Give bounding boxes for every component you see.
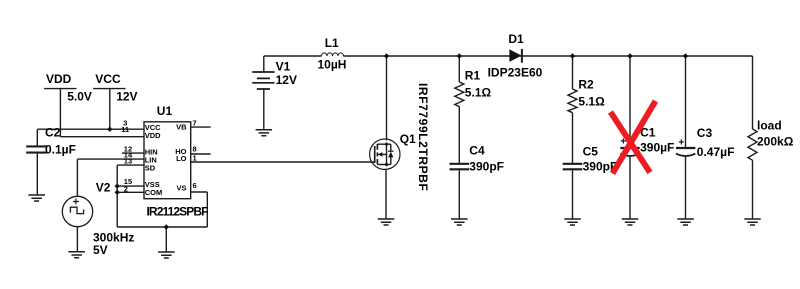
svg-text:D1: D1: [508, 32, 524, 46]
svg-text:load: load: [757, 119, 782, 133]
svg-text:C3: C3: [697, 126, 713, 140]
svg-text:5V: 5V: [93, 243, 108, 257]
svg-text:VS: VS: [176, 184, 186, 193]
svg-text:VDD: VDD: [46, 72, 72, 86]
svg-text:200kΩ: 200kΩ: [757, 135, 794, 149]
svg-text:VB: VB: [176, 123, 187, 132]
svg-text:IDP23E60: IDP23E60: [488, 66, 543, 80]
svg-text:5.0V: 5.0V: [67, 90, 92, 104]
svg-text:L1: L1: [325, 36, 339, 50]
svg-text:R1: R1: [465, 69, 481, 83]
svg-text:12V: 12V: [276, 73, 297, 87]
svg-text:5.1Ω: 5.1Ω: [578, 95, 605, 109]
svg-text:11: 11: [121, 125, 129, 134]
svg-text:13: 13: [124, 157, 132, 166]
svg-text:VDD: VDD: [145, 131, 161, 140]
svg-text:12V: 12V: [116, 90, 137, 104]
svg-text:IR2112SPBF: IR2112SPBF: [147, 205, 209, 219]
svg-text:SD: SD: [145, 164, 156, 173]
svg-text:V1: V1: [276, 60, 291, 74]
svg-text:C5: C5: [583, 145, 599, 159]
svg-text:10µH: 10µH: [318, 58, 347, 72]
svg-text:C2: C2: [45, 125, 61, 139]
svg-text:U1: U1: [157, 104, 173, 118]
svg-text:V2: V2: [96, 181, 111, 195]
svg-text:VCC: VCC: [95, 72, 121, 86]
svg-text:R2: R2: [578, 78, 594, 92]
svg-text:2: 2: [124, 184, 128, 193]
svg-text:390pF: 390pF: [469, 160, 504, 174]
svg-text:0.1µF: 0.1µF: [45, 142, 76, 156]
svg-text:COM: COM: [145, 188, 163, 197]
svg-text:+: +: [678, 137, 684, 148]
svg-text:6: 6: [193, 181, 197, 190]
svg-text:IRF7799L2TRPBF: IRF7799L2TRPBF: [416, 83, 430, 191]
svg-text:C4: C4: [469, 144, 485, 158]
svg-text:7: 7: [193, 118, 197, 127]
svg-text:5.1Ω: 5.1Ω: [465, 86, 492, 100]
svg-text:Q1: Q1: [400, 132, 416, 146]
svg-text:0.47µF: 0.47µF: [697, 145, 735, 159]
svg-text:390µF: 390µF: [640, 141, 674, 155]
svg-text:8: 8: [193, 144, 197, 153]
svg-text:1: 1: [193, 153, 197, 162]
svg-text:LO: LO: [176, 154, 187, 163]
